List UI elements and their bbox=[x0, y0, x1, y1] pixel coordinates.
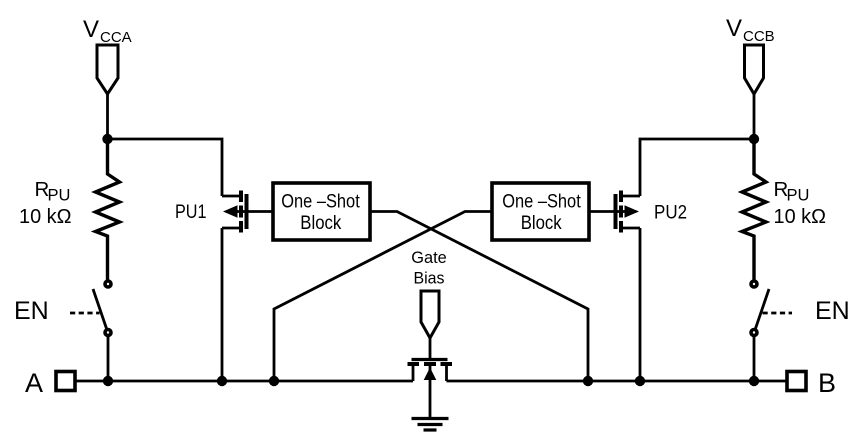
ground bbox=[412, 419, 449, 431]
svg-text:PU2: PU2 bbox=[654, 202, 687, 224]
svg-text:Block: Block bbox=[521, 213, 562, 234]
label RPU right bbox=[774, 178, 810, 205]
svg-text:One –Shot: One –Shot bbox=[502, 192, 581, 213]
junction dot B switch bbox=[749, 376, 759, 386]
svg-text:CCA: CCA bbox=[100, 29, 132, 46]
svg-text:V: V bbox=[83, 16, 99, 43]
junction dot left cross wire bbox=[269, 376, 279, 386]
cross wire from right block to left bus bbox=[274, 212, 492, 382]
junction dot PU1 drain bbox=[217, 376, 227, 386]
junction dot PU2 drain bbox=[635, 376, 645, 386]
wire top rail left bbox=[108, 139, 223, 196]
one-shot block left bbox=[273, 183, 370, 240]
resistor RPU left bbox=[96, 139, 120, 281]
net VCCB label bbox=[726, 15, 775, 45]
wire gate bias to gate bbox=[429, 338, 432, 360]
switch EN left: top contact bbox=[105, 281, 111, 287]
switch EN right: dashed actuator line bbox=[763, 312, 793, 315]
svg-text:EN: EN bbox=[815, 297, 850, 325]
svg-text:CCB: CCB bbox=[743, 28, 775, 45]
svg-text:V: V bbox=[726, 15, 742, 42]
terminal B bbox=[787, 372, 806, 391]
wire VCCB to node bbox=[753, 94, 756, 139]
svg-text:PU1: PU1 bbox=[175, 201, 207, 223]
svg-text:PU: PU bbox=[48, 187, 71, 205]
svg-text:One –Shot: One –Shot bbox=[281, 192, 360, 213]
svg-text:10 kΩ: 10 kΩ bbox=[19, 205, 72, 228]
power pin symbol VCCA bbox=[97, 45, 118, 94]
svg-text:EN: EN bbox=[14, 297, 49, 325]
one-shot block right bbox=[492, 183, 589, 240]
net VCCA label bbox=[83, 16, 132, 46]
terminal A bbox=[56, 372, 75, 391]
svg-text:PU: PU bbox=[787, 187, 810, 205]
resistor RPU right bbox=[742, 139, 766, 281]
transistor pass FET center bbox=[408, 360, 453, 418]
switch EN left: blade bbox=[93, 289, 107, 330]
junction dot right cross wire bbox=[583, 376, 593, 386]
switch EN right: blade bbox=[755, 289, 769, 330]
svg-text:10 kΩ: 10 kΩ bbox=[774, 205, 827, 228]
switch EN left: bottom contact bbox=[105, 330, 111, 336]
junction dot A switch bbox=[103, 376, 113, 386]
switch EN right: bottom contact bbox=[751, 330, 757, 336]
power pin symbol gate bias bbox=[421, 291, 439, 338]
svg-text:Gate: Gate bbox=[411, 249, 447, 267]
switch EN left: dashed actuator line bbox=[70, 312, 100, 315]
bus wire B-side bbox=[447, 380, 788, 383]
wire switch to bus right bbox=[753, 336, 756, 382]
switch EN right: top contact bbox=[751, 281, 757, 287]
label Gate Bias bbox=[411, 249, 447, 288]
wire switch to bus left bbox=[107, 336, 110, 382]
label RPU left bbox=[35, 178, 71, 205]
bus wire A-side bbox=[75, 380, 413, 383]
svg-text:A: A bbox=[25, 368, 43, 398]
wire VCCA to node bbox=[106, 94, 109, 139]
svg-text:B: B bbox=[818, 368, 836, 398]
transistor PU1 bbox=[222, 191, 273, 382]
junction dot right supply node bbox=[749, 134, 759, 144]
transistor PU2 bbox=[589, 191, 640, 382]
svg-text:Bias: Bias bbox=[414, 270, 445, 288]
junction dot left supply node bbox=[102, 134, 112, 144]
svg-text:Block: Block bbox=[300, 213, 341, 234]
wire top rail right bbox=[640, 139, 754, 196]
power pin symbol VCCB bbox=[745, 45, 764, 94]
cross wire from left block to right bus bbox=[370, 212, 588, 382]
